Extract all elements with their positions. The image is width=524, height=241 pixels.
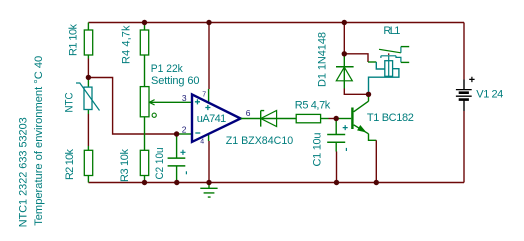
svg-text:NTC: NTC	[64, 92, 76, 112]
svg-text:R4 4,7k: R4 4,7k	[121, 25, 133, 64]
svg-text:RL1: RL1	[383, 25, 400, 37]
wire right rail upper	[463, 23, 465, 80]
resistor R4	[144, 23, 146, 87]
junction bus ground	[206, 180, 211, 185]
ground	[200, 183, 217, 198]
resistor R5	[296, 114, 320, 122]
wire NTC to R2	[87, 114, 89, 146]
junction top rail op-amp supply	[206, 20, 211, 25]
svg-text:7: 7	[202, 92, 206, 99]
junction R5-base-C1 node	[334, 116, 339, 121]
svg-text:Temperature of environment °C: Temperature of environment °C 40	[33, 56, 45, 226]
svg-text:C1 10u: C1 10u	[312, 133, 324, 167]
wire relay branch from top rail	[343, 23, 345, 54]
zener diode Z1	[261, 111, 265, 127]
junction bus C1	[334, 180, 339, 185]
op-amp U1 uA741	[192, 94, 241, 141]
junction bus emitter	[374, 180, 379, 185]
svg-text:uA741: uA741	[197, 113, 227, 125]
relay coil return wire	[369, 69, 399, 95]
resistor R1	[87, 23, 89, 59]
transistor Q1 T1	[336, 118, 351, 120]
wire node A to relay coil	[344, 54, 368, 62]
svg-text:4: 4	[200, 138, 204, 145]
diode D1	[343, 54, 345, 89]
wire pin7 supply from top rail	[208, 23, 210, 90]
svg-text:Z1 BZX84C10: Z1 BZX84C10	[226, 135, 294, 147]
relay contact terminal lower	[396, 56, 401, 63]
svg-text:T1 BC182: T1 BC182	[367, 112, 414, 124]
relay RL1 coil	[385, 61, 393, 77]
svg-text:R5 4,7k: R5 4,7k	[295, 100, 331, 112]
junction node A D1-relay	[342, 51, 347, 56]
wire op-amp output	[241, 118, 297, 120]
wire D1 anode to node B	[344, 89, 368, 95]
junction R1-NTC node	[86, 75, 91, 80]
svg-text:C2 10u: C2 10u	[154, 148, 166, 180]
capacitor C1	[335, 119, 337, 152]
capacitor C2	[176, 134, 178, 183]
svg-text:2: 2	[182, 125, 187, 135]
junction top rail relay branch	[342, 20, 347, 25]
wire bottom bus	[88, 182, 464, 184]
wire node A to op-amp pin 2	[88, 78, 176, 135]
svg-text:P1 22k: P1 22k	[151, 63, 183, 75]
svg-text:R3 10k: R3 10k	[119, 149, 131, 183]
svg-text:3: 3	[182, 93, 187, 103]
junction bus R3	[142, 180, 147, 185]
thermistor NTC	[87, 77, 89, 114]
junction bus C2	[174, 180, 179, 185]
relay contact lever	[379, 49, 401, 53]
battery V1	[463, 80, 465, 112]
wire pin 2 stub	[177, 133, 192, 135]
junction top rail R4	[142, 20, 147, 25]
resistor R2	[87, 146, 89, 183]
wire right rail lower	[463, 111, 465, 183]
svg-text:D1 1N4148: D1 1N4148	[316, 32, 328, 87]
wire pin4 supply to bus	[208, 135, 210, 141]
svg-text:Setting 60: Setting 60	[151, 75, 200, 87]
wire R1 to NTC	[87, 59, 89, 78]
junction node B collector	[366, 92, 371, 97]
svg-text:V1 24: V1 24	[476, 89, 503, 101]
svg-text:6: 6	[246, 108, 251, 118]
svg-text:R1 10k: R1 10k	[68, 24, 80, 57]
wire top rail	[88, 22, 464, 24]
resistor R3	[140, 150, 148, 175]
relay contact terminal upper	[400, 47, 402, 53]
svg-text:R2 10k: R2 10k	[64, 149, 76, 181]
svg-text:NTC1 2322 633 53203: NTC1 2322 633 53203	[17, 117, 29, 227]
junction pin2-C2 node	[174, 131, 179, 136]
potentiometer P1	[144, 117, 146, 151]
